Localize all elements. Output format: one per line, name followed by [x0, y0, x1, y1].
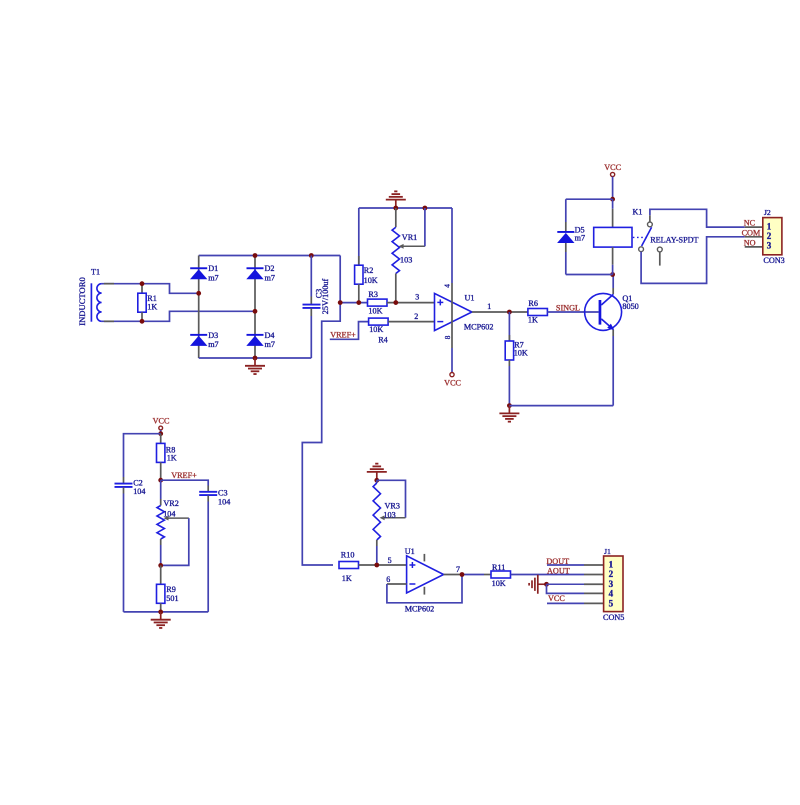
power port VCC above relay — [604, 163, 621, 199]
svg-text:10K: 10K — [368, 307, 382, 316]
svg-text:VCC: VCC — [604, 163, 621, 172]
resistor R2 — [355, 208, 378, 303]
diode D2 — [246, 264, 275, 282]
svg-text:J1: J1 — [604, 547, 611, 556]
svg-text:m7: m7 — [208, 340, 218, 349]
wire bridge+ down to R3 node and to lower section — [302, 256, 340, 566]
svg-text:2: 2 — [767, 231, 772, 241]
wire DOUT to J1 pin1 — [547, 564, 584, 566]
junction VR3 top — [374, 478, 379, 483]
svg-text:104: 104 — [163, 509, 175, 518]
svg-text:R4: R4 — [378, 336, 388, 345]
wire R4 row to VREF+ stub — [330, 322, 369, 340]
connector J1 CON5 — [603, 547, 624, 622]
junction R3 row VR1 bottom — [393, 300, 398, 305]
svg-text:R6: R6 — [528, 299, 538, 308]
svg-text:m7: m7 — [208, 273, 218, 282]
svg-text:R10: R10 — [341, 551, 355, 560]
svg-text:1K: 1K — [147, 302, 157, 311]
wire emitter to ground rail — [509, 405, 613, 407]
pin 4 power line — [451, 208, 453, 283]
resistor R7 — [505, 312, 528, 406]
resistor R4 — [369, 318, 389, 345]
op-amp U1 MCP602 gate A — [435, 293, 494, 331]
svg-text:8: 8 — [444, 335, 452, 339]
wire ground to J1 pin3 — [547, 583, 585, 585]
svg-text:7: 7 — [456, 565, 460, 574]
svg-text:R3: R3 — [368, 290, 378, 299]
svg-text:SINGL: SINGL — [556, 303, 580, 312]
power port VCC at op-amp pin8 — [444, 348, 461, 387]
svg-text:m7: m7 — [575, 234, 585, 243]
resistor R1 — [138, 284, 158, 322]
transistor Q1 8050 — [585, 293, 639, 330]
potentiometer VR1 — [392, 208, 425, 303]
wire bridge bottom rail — [199, 357, 312, 359]
svg-text:VR2: VR2 — [163, 499, 178, 508]
svg-text:3: 3 — [415, 292, 419, 301]
junction bridge right input — [253, 309, 258, 314]
svg-text:1K: 1K — [342, 574, 352, 583]
svg-text:NC: NC — [744, 219, 756, 228]
svg-text:5: 5 — [388, 556, 392, 565]
wire R10 to op-amp pin5 — [359, 564, 377, 566]
junction ground rail — [158, 610, 163, 615]
resistor R3 — [368, 290, 388, 316]
potentiometer VR3 — [373, 480, 405, 565]
ground above rail — [395, 200, 397, 208]
svg-text:T1: T1 — [91, 268, 100, 277]
capacitor C3 25V/100uf — [303, 256, 324, 359]
svg-text:VR3: VR3 — [385, 502, 400, 511]
svg-text:D1: D1 — [208, 264, 218, 273]
wire lower-left ground rail — [124, 611, 209, 613]
diode D1 — [190, 264, 219, 282]
wire T1 bottom to bridge right input — [102, 311, 255, 321]
svg-text:U1: U1 — [465, 293, 475, 302]
svg-text:R11: R11 — [492, 563, 505, 572]
svg-text:VR1: VR1 — [402, 233, 417, 242]
wire VREF to C3 branch — [161, 480, 209, 485]
svg-text:DOUT: DOUT — [546, 557, 569, 566]
pin J2-3 stub — [745, 246, 763, 248]
wire bridge right column — [254, 256, 256, 359]
pin J2-2 stub — [745, 236, 763, 238]
svg-text:K1: K1 — [633, 208, 643, 217]
svg-text:104: 104 — [133, 487, 145, 496]
junction VREF node — [158, 478, 163, 483]
svg-text:103: 103 — [400, 256, 412, 265]
junction pin5 node — [374, 563, 379, 568]
svg-text:3: 3 — [767, 241, 772, 251]
svg-text:4: 4 — [443, 284, 451, 288]
svg-text:2: 2 — [609, 569, 614, 579]
wire op-amp output pin1 — [472, 311, 528, 313]
wire op-amp output pin7 — [444, 574, 462, 576]
junction pin7 node — [460, 572, 465, 577]
svg-text:2: 2 — [414, 312, 418, 321]
junction R3 row R2 — [356, 300, 361, 305]
svg-text:VCC: VCC — [153, 416, 170, 425]
pin T1 bottom stub — [104, 320, 114, 322]
resistor R11 — [491, 563, 511, 588]
wire bridge left column — [198, 256, 200, 359]
potentiometer VR2 — [157, 480, 189, 565]
wire T1 top to bridge left input — [102, 284, 199, 294]
wire bridge top rail — [199, 255, 341, 257]
svg-text:25V/100uf: 25V/100uf — [321, 278, 330, 314]
pin J1-5 stub — [584, 602, 604, 604]
junction top rail at C3 — [309, 253, 314, 258]
junction ground node below R7 — [507, 403, 512, 408]
pin T1 top stub — [104, 283, 114, 285]
wire power rail above op-amp — [359, 207, 452, 209]
junction top rail at D2 — [253, 253, 258, 258]
svg-text:MCP602: MCP602 — [405, 604, 435, 613]
svg-text:8050: 8050 — [622, 302, 638, 311]
svg-text:1: 1 — [767, 221, 772, 231]
junction rail at VR1 wiper — [423, 206, 428, 211]
pin J1-1 stub — [584, 564, 604, 566]
junction op-amp output — [507, 310, 512, 315]
svg-text:10K: 10K — [364, 276, 378, 285]
junction R3 row bridge feed — [338, 300, 343, 305]
junction rail at ground/VR1 — [393, 206, 398, 211]
junction VCC node — [158, 431, 163, 436]
svg-text:D3: D3 — [208, 331, 218, 340]
wire R11 to J1 pin2 — [511, 574, 585, 576]
svg-text:D2: D2 — [265, 264, 275, 273]
svg-text:VREF+: VREF+ — [171, 471, 197, 480]
junction VR2 bottom — [158, 563, 163, 568]
pin J1-2 stub — [584, 574, 604, 576]
wire R3 to op-amp pin3 — [387, 302, 435, 304]
op-amp U1 MCP602 gate B — [405, 547, 444, 613]
wire R3 input row — [340, 302, 367, 304]
svg-text:CON3: CON3 — [763, 256, 784, 265]
junction bottom rail at D4 — [253, 356, 258, 361]
power port VCC lower-left — [153, 416, 170, 433]
wire VCC to J1 pin5 — [547, 602, 584, 604]
wire switch common to J2 pin1 — [650, 209, 745, 227]
connector J2 CON3 — [763, 208, 785, 265]
svg-text:NO: NO — [744, 238, 756, 247]
svg-text:COM: COM — [742, 228, 761, 237]
svg-text:1K: 1K — [528, 316, 538, 325]
wire ground jog to J1 pin4 — [547, 584, 585, 593]
relay wiper dashed link — [633, 236, 647, 238]
svg-text:10K: 10K — [369, 325, 383, 334]
ground below R7 — [508, 406, 510, 414]
resistor R6 — [528, 299, 548, 325]
svg-text:R9: R9 — [166, 585, 176, 594]
diode D5 — [557, 199, 613, 274]
relay coil K1 — [594, 199, 643, 274]
capacitor C2 — [115, 477, 146, 612]
svg-text:103: 103 — [383, 511, 395, 520]
svg-text:4: 4 — [609, 588, 614, 598]
junction relay top — [610, 197, 615, 202]
wire Q1 emitter down — [612, 330, 614, 336]
svg-text:6: 6 — [386, 575, 390, 584]
svg-text:10K: 10K — [492, 579, 506, 588]
svg-text:U1: U1 — [405, 547, 415, 556]
ground sideways at J1 — [538, 583, 547, 585]
svg-text:RELAY-SPDT: RELAY-SPDT — [650, 235, 698, 244]
junction bridge left input — [196, 291, 201, 296]
diode D4 — [246, 331, 275, 349]
svg-text:C3: C3 — [218, 488, 228, 497]
svg-text:1: 1 — [487, 302, 491, 311]
svg-text:VCC: VCC — [548, 594, 565, 603]
svg-text:1: 1 — [609, 560, 614, 570]
svg-text:J2: J2 — [764, 208, 771, 217]
junction R1 bottom — [140, 319, 145, 324]
svg-text:MCP602: MCP602 — [464, 322, 494, 331]
svg-text:VCC: VCC — [444, 378, 461, 387]
resistor R9 — [157, 565, 179, 612]
ground below bridge — [254, 358, 256, 366]
wire Q1 collector up to relay node — [612, 288, 614, 294]
resistor R8 — [157, 434, 177, 481]
svg-text:m7: m7 — [265, 340, 275, 349]
wire switch arm to J2 pin2 — [641, 237, 745, 284]
relay switch RELAY-SPDT — [639, 215, 699, 265]
junction relay bottom — [610, 272, 615, 277]
ground above VR3 — [376, 472, 378, 480]
svg-text:501: 501 — [166, 594, 178, 603]
svg-text:10K: 10K — [514, 349, 528, 358]
pin J2-1 stub — [745, 226, 763, 228]
wire R6 to Q1 base — [547, 311, 598, 313]
svg-text:m7: m7 — [265, 273, 275, 282]
svg-text:5: 5 — [609, 598, 614, 608]
junction J1 ground node — [544, 582, 549, 587]
svg-text:104: 104 — [218, 497, 230, 506]
ground below R9 — [160, 612, 162, 620]
svg-text:VREF+: VREF+ — [330, 330, 356, 339]
svg-text:1K: 1K — [167, 454, 177, 463]
wire R4 to op-amp pin2 — [388, 321, 434, 323]
svg-text:INDUCTOR0: INDUCTOR0 — [77, 277, 87, 326]
svg-text:AOUT: AOUT — [547, 566, 570, 575]
svg-text:R2: R2 — [364, 266, 374, 275]
resistor R10 — [339, 551, 359, 583]
diode D3 — [190, 331, 219, 349]
junction R1 top — [140, 281, 145, 286]
wire feedback pin6 loop — [387, 583, 407, 585]
svg-text:D4: D4 — [265, 331, 275, 340]
svg-text:CON5: CON5 — [603, 613, 624, 622]
capacitor C3 104 — [199, 486, 230, 612]
pin J1-4 stub — [584, 592, 604, 594]
transformer T1 (INDUCTOR0) — [77, 268, 101, 326]
wire VCC node to C2 branch — [124, 434, 161, 477]
pin J1-3 stub — [584, 583, 604, 585]
